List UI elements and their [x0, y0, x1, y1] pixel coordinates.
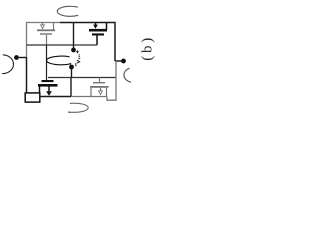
label: figure caption (b) rotated [139, 35, 155, 61]
transistor M3 (black, bottom-left) gate bar [42, 80, 54, 82]
label: v_osc (rotated 90ccw, drawn as tiny strokes) [77, 55, 80, 63]
node: right terminal dot [121, 59, 126, 64]
wire: bottom-right stepped corner and right gray vertical [107, 61, 116, 100]
wire: center vertical from top rail to node A [73, 23, 75, 49]
label: minus sign near node A (rotated) [76, 50, 79, 53]
transistor M4 channel bar [90, 86, 109, 88]
current arrow arc (left edge) [2, 55, 13, 74]
wire: left vertical lower black segment [26, 58, 28, 93]
transistor M1 gate bar [40, 33, 52, 34]
current arrow arc (center, flattened) [47, 56, 72, 65]
node: left terminal dot [14, 55, 19, 60]
transistor M2 gate bar [92, 33, 104, 35]
wire: bottom rail black segment [40, 96, 71, 98]
transistor M3 channel bar [38, 84, 58, 87]
transistor M4 right lead [106, 88, 108, 97]
transistor M1 (gray, top-left) channel bar [37, 29, 55, 31]
wire: top rail gray segment (left oscillator) [27, 23, 61, 59]
transistor M1 drain lead [53, 23, 55, 30]
wire: left terminal stub [19, 57, 27, 59]
transistor M4 source lead with hollow arrow [99, 88, 103, 95]
transistor M2 (black, top-right) channel bar [89, 29, 107, 32]
label: plus sign near node B (rotated) [75, 63, 77, 66]
transistor M4 left lead [90, 88, 92, 97]
wire: center vertical from lower rail to bottom rail [70, 78, 72, 97]
wire: mid horizontal rail (lower) [48, 77, 116, 79]
current arrow arc (bottom center) [68, 103, 88, 113]
node B: output terminal dot (lower) [69, 65, 74, 70]
transistor M2 source lead with solid arrow [93, 23, 98, 29]
transistor M4 (gray, bottom-right) gate lead from lower rail [99, 78, 101, 83]
wire: mid horizontal rail (upper) [27, 44, 98, 46]
wire: M2 gate lead down to mid rail [96, 36, 98, 46]
wire: M1 gate lead down to mid rail [46, 35, 48, 45]
node A: output terminal dot (upper) [71, 48, 76, 53]
current arrow arc (top center) [57, 6, 78, 16]
wire: top rail black segment to right vertical [60, 23, 115, 62]
transistor M1 source lead with hollow arrow [41, 23, 45, 29]
wire: right terminal stub [115, 60, 122, 62]
transistor M3 left lead down to box [39, 87, 41, 93]
transistor M4 gate bar [93, 82, 105, 83]
wire: M1/M3 shared gate vertical [46, 45, 48, 80]
wire: bottom rail gray segment [71, 96, 107, 98]
wire: stub from node B down to lower rail [71, 67, 73, 78]
current arrow arc (right) [124, 68, 131, 82]
transistor M2 drain lead [106, 23, 108, 30]
svg-text:(b): (b) [139, 35, 155, 61]
resistor/tank box (bottom-left) [25, 93, 40, 102]
transistor M3 source lead with solid arrow [46, 87, 52, 96]
